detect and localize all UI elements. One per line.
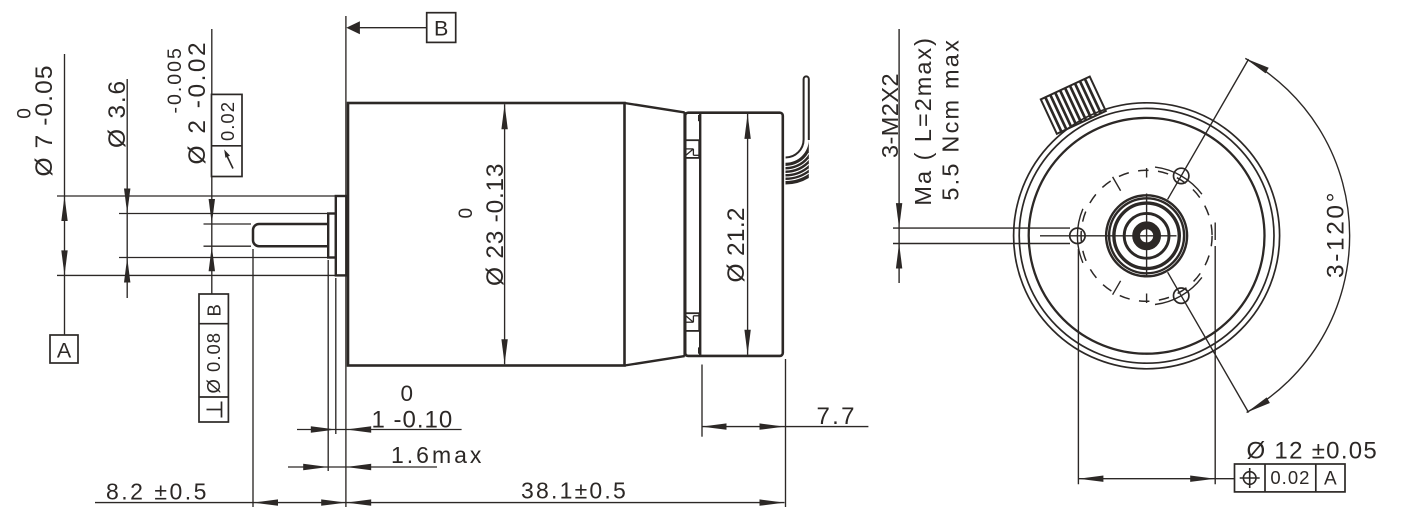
extension line Ø3.6 top (119, 213, 328, 215)
boss ring 2 (1114, 203, 1179, 268)
mounting hole M2 top-right (1174, 168, 1189, 183)
lead wire strain-relief ribs (786, 140, 809, 185)
svg-text:Ma ( L=2max): Ma ( L=2max) (910, 36, 936, 206)
dimension line 7.7 (702, 426, 869, 428)
svg-text:Ø 2 -0.02: Ø 2 -0.02 (184, 40, 211, 165)
shaft boss dark ring (1136, 225, 1157, 246)
arc arrowhead bottom (1247, 397, 1270, 412)
svg-text:0.02: 0.02 (217, 101, 238, 141)
dimension line 1.6max (288, 466, 437, 468)
motor body (side view, Ø23 housing) (348, 103, 625, 366)
position symbol (1243, 472, 1256, 485)
arc through top-right mounting hole (1155, 167, 1202, 194)
radial centerline through bottom-right hole (1113, 177, 1121, 191)
svg-text:Ø 0.08: Ø 0.08 (203, 332, 224, 394)
shaft step Ø3.6 (328, 214, 336, 258)
label 5.5 Ncm max (938, 38, 964, 201)
svg-text:0: 0 (401, 381, 414, 406)
svg-text:38.1±0.5: 38.1±0.5 (521, 477, 628, 503)
svg-text:1 -0.10: 1 -0.10 (372, 407, 454, 434)
rim top stub mark (698, 115, 700, 121)
svg-text:1.6max: 1.6max (391, 442, 484, 468)
front view case rim circle (1029, 118, 1265, 354)
svg-text:-0.005: -0.005 (164, 46, 186, 113)
dimension line Ø7 / datum A leader (64, 54, 66, 335)
vertical centerline tick top (1146, 168, 1148, 178)
svg-text:3-120°: 3-120° (1323, 190, 1350, 278)
mounting hole M2 left (1070, 228, 1085, 243)
svg-text:3-M2X2: 3-M2X2 (877, 73, 903, 158)
vertical centerline (1146, 194, 1148, 278)
label Ø7 -0.05 / 0 (15, 64, 59, 176)
arc through bottom-right mounting hole (1155, 277, 1202, 304)
Ø12 left extension line (1077, 249, 1079, 484)
Ø12 right extension line (1214, 246, 1216, 484)
shaft tip extension line (252, 249, 254, 507)
extension line Ø7 bottom (57, 274, 336, 276)
label Ø23 -0.13 / 0 (456, 163, 509, 286)
feature control frame circular runout 0.02 (212, 94, 243, 176)
front view outer circle Ø23 (1014, 103, 1280, 369)
Ø12 dimension line (1078, 478, 1234, 480)
cap front extension line (701, 365, 703, 437)
label Ø2 -0.005/-0.02 (164, 40, 211, 165)
svg-text:5.5 Ncm max: 5.5 Ncm max (938, 38, 964, 201)
svg-text:Ø 12 ±0.05: Ø 12 ±0.05 (1247, 438, 1379, 465)
arc through left mounting hole (1077, 209, 1082, 263)
svg-text:8.2 ±0.5: 8.2 ±0.5 (106, 479, 209, 505)
datum B box (427, 13, 456, 43)
M2 hole top tangent extension line (893, 227, 1070, 229)
runout symbol arrow (227, 155, 234, 169)
svg-text:0.02: 0.02 (1270, 467, 1310, 488)
extension line Ø2 top (204, 223, 252, 225)
svg-text:Ø 7 -0.05: Ø 7 -0.05 (31, 64, 58, 176)
arc arrowhead top (1245, 58, 1268, 73)
front view terminal block (hatched) (1041, 77, 1106, 134)
bolt circle Ø12 (dashed) (1081, 170, 1212, 301)
extension line Ø7 top (57, 195, 336, 197)
end cap (Ø21.2) (685, 113, 783, 356)
front face extension line (345, 16, 347, 507)
washer face extension line (335, 278, 337, 434)
svg-text:B: B (204, 303, 225, 316)
spring clip tab top (686, 140, 700, 158)
label 3-M2X2 (877, 73, 903, 158)
svg-text:7.7: 7.7 (817, 403, 857, 430)
3-120 degree arc dimension (1245, 58, 1349, 412)
mounting hole M2 bottom-right (1174, 288, 1189, 303)
datum B triangle (346, 21, 360, 34)
vertical centerline tick bottom (1146, 294, 1148, 304)
svg-text:Ø 21.2: Ø 21.2 (723, 207, 750, 282)
label Ø3.6 (104, 79, 131, 148)
step face extension line (327, 260, 329, 471)
svg-text:Ø 3.6: Ø 3.6 (104, 79, 131, 148)
front view second circle (1019, 108, 1274, 363)
datum B leader (360, 27, 427, 29)
dimension line Ø2 / leader to runout FCF and perp FCF (211, 29, 213, 294)
feature control frame perpendicularity Ø0.08 B (199, 294, 228, 422)
M2 hole bottom tangent extension line (893, 243, 1070, 245)
spring clip tab bottom (686, 313, 700, 331)
perpendicularity symbol (221, 402, 223, 418)
datum A box (50, 335, 78, 363)
shaft Ø2 (253, 224, 328, 246)
end cap rim seam line (699, 113, 701, 356)
dimension line 8.2 and 38.1 (95, 502, 785, 504)
svg-text:0: 0 (15, 107, 36, 119)
front boss washer Ø7 (336, 196, 347, 275)
svg-text:A: A (57, 339, 72, 363)
boss outer ring band (1108, 197, 1186, 275)
rear face extension line (785, 359, 787, 507)
dimension line Ø23 (504, 104, 506, 364)
extension line Ø3.6 bottom (119, 257, 328, 259)
housing taper bottom edge (625, 356, 685, 365)
boss ring 3 (1124, 213, 1169, 258)
label Ma (L=2max) (910, 36, 936, 206)
Ø12 right extension tick (1214, 223, 1216, 241)
feature control frame position 0.02 A (1235, 464, 1346, 492)
radial centerline through top-right hole (1113, 281, 1121, 295)
M2 dimension line (898, 29, 900, 283)
housing taper top edge (625, 103, 685, 112)
svg-text:0: 0 (456, 206, 477, 218)
dimension line 1 -0.10 (297, 429, 462, 431)
lead wire bundle (786, 76, 809, 157)
svg-text:A: A (1324, 469, 1337, 490)
rim bottom stub mark (698, 347, 700, 353)
taper end vertical edge (683, 112, 685, 357)
dimension line Ø3.6 (126, 79, 128, 298)
svg-text:B: B (434, 17, 448, 41)
dimension line Ø21.2 (747, 114, 749, 355)
svg-text:Ø 23 -0.13: Ø 23 -0.13 (482, 163, 509, 286)
label 3-120° (1323, 190, 1350, 278)
label Ø21.2 (723, 207, 750, 282)
horizontal centerline (1040, 235, 1177, 237)
extension line Ø2 bottom (204, 245, 252, 247)
